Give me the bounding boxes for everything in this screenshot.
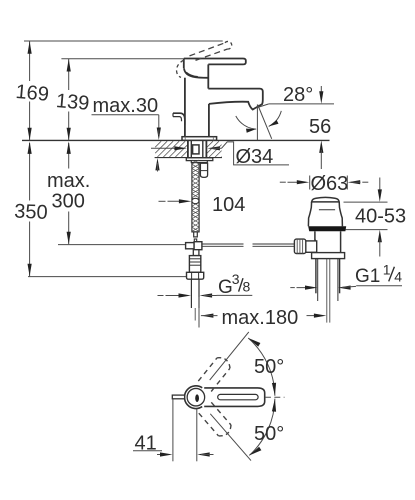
svg-text:Ø34: Ø34 <box>236 146 274 168</box>
upper 50 degree arc with arrowheads <box>248 338 276 396</box>
pop-up rod horizontal extension line <box>58 244 185 246</box>
spray angle arc right with arrowhead <box>269 111 282 127</box>
deck hatching left of shank <box>155 141 187 157</box>
faucet body column <box>185 78 209 137</box>
svg-text:1: 1 <box>383 262 391 278</box>
threaded rod with flexible hoses (hatched) <box>192 160 199 237</box>
handle ghost position lower (dashed) <box>199 402 231 436</box>
svg-text:Ø63: Ø63 <box>311 173 349 195</box>
deck underside line <box>155 157 222 159</box>
spray angle arc left with arrowhead <box>236 116 256 133</box>
svg-text:max.: max. <box>47 170 90 192</box>
svg-text:8: 8 <box>243 279 251 295</box>
dimension max.300 label <box>47 170 90 213</box>
mounting shank through deck <box>188 140 207 157</box>
drain inlet knurled cap <box>294 239 305 253</box>
drain collar <box>312 253 345 259</box>
label diameter 34 with leader <box>222 142 290 168</box>
drain side inlet port <box>306 241 317 252</box>
handle top view center dot <box>195 394 199 402</box>
supply pipe <box>191 279 199 320</box>
dimension 41 extension lines <box>173 399 197 461</box>
svg-text:139: 139 <box>55 90 90 115</box>
dimension 139 line <box>67 59 71 141</box>
drain bell body <box>308 202 342 226</box>
svg-text:50°: 50° <box>254 423 284 445</box>
drain plug cap <box>312 197 340 202</box>
dimension max.300 line <box>67 141 71 244</box>
countertop deck line <box>22 139 330 141</box>
dimension 56 <box>309 86 331 169</box>
handle top view lever <box>204 388 265 407</box>
svg-text:G1: G1 <box>355 266 380 287</box>
handle top view left pin <box>172 395 184 399</box>
label 50 degrees upper <box>254 356 284 378</box>
dimension 139 label <box>55 90 90 115</box>
label 50 degrees lower <box>254 423 284 445</box>
pop-up rod to drain (left segment) <box>202 244 244 246</box>
drain body below gasket <box>315 231 341 252</box>
faucet base flange <box>182 137 217 141</box>
mounting nut beside rod <box>200 163 207 177</box>
drain tailpipe <box>316 259 340 323</box>
dimension diameter 63 <box>280 176 369 190</box>
dimension diameter 34 arrows <box>151 146 222 150</box>
deck hatching right of shank <box>207 141 222 157</box>
dimension 40-53 <box>344 178 407 257</box>
handle top view hub inner circle <box>187 388 205 406</box>
svg-text:3: 3 <box>232 271 240 287</box>
label 28 degrees with leader <box>258 84 334 108</box>
dimension G3/8 arrows <box>158 293 217 297</box>
pop-up pull rod knob <box>173 113 185 124</box>
svg-text:50°: 50° <box>254 356 284 378</box>
dimension max.180 <box>199 297 326 329</box>
extension line top of lever raised position <box>24 40 223 42</box>
faucet lever bar <box>184 59 246 69</box>
faucet spout block and aerator <box>208 89 262 110</box>
dimension 350 label <box>14 201 48 224</box>
lower 50 degree leg line <box>210 414 251 461</box>
spray angle 28 degree leg <box>258 105 272 139</box>
faucet lever pivot wedge <box>184 68 208 78</box>
pop-up rod to drain (right segment) <box>253 244 295 246</box>
dimension 104 arrow and label <box>159 194 246 216</box>
supply hose connector <box>189 256 200 273</box>
svg-text:4: 4 <box>394 268 402 284</box>
dimension max.30 arrows <box>155 128 161 172</box>
upper 50 degree leg line <box>210 332 249 380</box>
label G1 1/4 <box>355 262 402 287</box>
extension line top of lever rest position <box>61 58 183 60</box>
supply hose nut <box>187 272 204 279</box>
reference line at 350 below faucet <box>28 276 187 278</box>
handle ghost position upper (dashed) <box>198 358 230 392</box>
svg-text:56: 56 <box>309 116 331 138</box>
svg-text:max.30: max.30 <box>93 95 159 117</box>
dimension G1 1/4 <box>290 286 356 290</box>
handle axis extension dashes <box>265 396 285 398</box>
mounting washer <box>186 158 213 161</box>
svg-text:40-53: 40-53 <box>355 205 406 227</box>
dimension 350 line <box>28 141 32 276</box>
mounting bracket <box>191 161 207 163</box>
dimension max.30 label and leader <box>92 95 159 129</box>
dimension 169 line <box>28 41 32 140</box>
handle top view hub outer ring <box>184 386 202 409</box>
lower 50 degree arc with arrowheads <box>249 399 276 456</box>
faucet pivot swing ghost arc (dashed) <box>177 60 184 77</box>
svg-text:max.180: max.180 <box>222 307 299 329</box>
spray angle vertical reference line <box>256 105 258 141</box>
dimension 169 label <box>15 81 50 106</box>
svg-text:104: 104 <box>212 194 245 216</box>
label diameter 63 <box>311 173 349 195</box>
svg-text:169: 169 <box>15 81 50 106</box>
svg-text:G: G <box>218 277 233 298</box>
drain rubber gasket <box>308 226 346 231</box>
faucet lever raised ghost (dashed) <box>190 41 232 60</box>
pop-up rod link fitting <box>186 239 202 256</box>
dimension 41 <box>133 432 214 456</box>
svg-text:350: 350 <box>14 201 48 224</box>
svg-text:28°: 28° <box>283 84 313 106</box>
svg-text:300: 300 <box>52 191 85 213</box>
faucet body right edge upper <box>207 64 209 88</box>
label G 3/8 <box>217 271 253 298</box>
